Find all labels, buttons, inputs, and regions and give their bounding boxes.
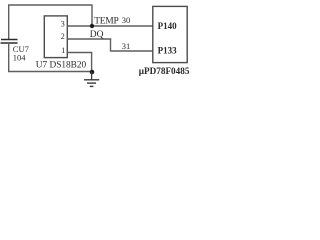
- ground bar 2: [87, 82, 96, 84]
- svg-text:104: 104: [13, 53, 26, 63]
- svg-text:TEMP: TEMP: [94, 16, 118, 26]
- ground bar 1: [84, 79, 99, 81]
- U7 DS18B20 box: [44, 16, 67, 58]
- wire pin3 TEMP net horizontal: [68, 25, 153, 27]
- wire pin2 DQ net horizontal upper: [68, 38, 112, 40]
- capacitor CU7 top plate: [1, 39, 18, 41]
- svg-text:μPD78F0485: μPD78F0485: [139, 66, 190, 76]
- junction dot ground node: [90, 70, 95, 75]
- svg-text:3: 3: [61, 20, 65, 29]
- capacitor CU7 bottom plate: [1, 42, 18, 44]
- junction dot TEMP node: [90, 24, 94, 28]
- wire left vertical from top to capacitor: [8, 5, 10, 40]
- microcontroller U box: [153, 6, 187, 62]
- svg-text:2: 2: [61, 32, 65, 41]
- wire left vertical from capacitor to bottom: [8, 43, 10, 72]
- svg-text:P133: P133: [158, 45, 177, 55]
- ground bar 3: [90, 85, 94, 87]
- wire bottom horizontal ground net: [8, 71, 92, 73]
- wire pin1 horizontal to ground drop: [68, 52, 93, 54]
- svg-text:30: 30: [122, 15, 131, 25]
- wire DQ net horizontal lower to P133: [111, 50, 153, 52]
- svg-text:DQ: DQ: [90, 30, 104, 40]
- wire ground drop vertical: [91, 53, 93, 73]
- wire DQ net vertical step: [110, 39, 112, 52]
- wire top horizontal VDD net: [8, 4, 93, 6]
- svg-text:U7 DS18B20: U7 DS18B20: [36, 61, 87, 71]
- svg-text:1: 1: [61, 46, 65, 55]
- ground stem: [91, 72, 93, 80]
- wire vertical from top net down to TEMP junction: [91, 5, 93, 27]
- svg-text:P140: P140: [158, 21, 177, 31]
- svg-text:31: 31: [122, 41, 131, 51]
